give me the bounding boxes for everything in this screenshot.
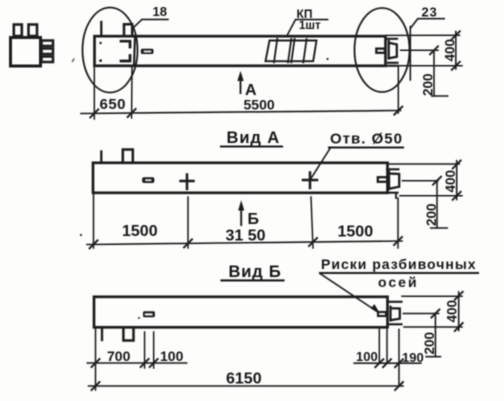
top view right cup top line	[386, 38, 397, 40]
view B rod ext 2	[153, 332, 155, 368]
dim line 650+5500	[81, 111, 401, 114]
svg-text:31 50: 31 50	[226, 228, 266, 245]
view B 400 ext top	[402, 295, 462, 297]
view B tick 6150 left	[92, 382, 100, 390]
label 18 leader	[133, 19, 168, 28]
section icon top lug 1	[14, 25, 22, 37]
top view 400 tick bottom	[452, 62, 460, 70]
view A 200 tick	[433, 177, 441, 185]
svg-text:18: 18	[153, 4, 167, 19]
KP stripe 4	[303, 39, 306, 62]
detail ellipse right	[355, 8, 410, 92]
view B beam outline	[94, 297, 388, 328]
svg-text:700: 700	[107, 348, 131, 364]
view A dim ext 3	[311, 197, 313, 248]
svg-text:Риски разбивочных: Риски разбивочных	[321, 256, 477, 272]
view A cross mark 2	[303, 173, 317, 189]
top view riska axis line	[409, 27, 411, 81]
view A hole leader	[310, 149, 330, 181]
svg-text:Отв. Ø50: Отв. Ø50	[330, 131, 403, 148]
view A beam outline	[93, 163, 388, 193]
view B cup bottom line	[389, 323, 402, 325]
svg-text:Вид Б: Вид Б	[229, 263, 282, 281]
view A dim ext 4	[397, 198, 399, 248]
view B center ext	[403, 313, 438, 315]
KP stripe 1	[274, 39, 277, 63]
top view right handle	[376, 49, 385, 53]
svg-text:23: 23	[422, 5, 438, 20]
view A 400 ext top	[389, 163, 460, 165]
view B 400 tick bottom	[455, 323, 463, 331]
tick 650 right	[128, 109, 136, 117]
top view 200 shelf	[432, 95, 448, 97]
svg-text:1шт: 1шт	[299, 20, 321, 32]
speck dot below handle B	[138, 317, 140, 319]
svg-text:400: 400	[443, 39, 458, 62]
view A dim ext 1	[93, 194, 95, 248]
top view beam outline	[95, 36, 386, 66]
svg-text:400: 400	[443, 170, 458, 193]
top view 400 dim line	[455, 32, 457, 70]
svg-text:650: 650	[100, 96, 127, 113]
section icon top lug 2	[29, 25, 38, 37]
view B tick 100 right	[150, 359, 158, 367]
view B 400 tick top	[455, 292, 463, 300]
view B riska leader	[320, 274, 379, 313]
view A 400 tick top	[453, 161, 461, 169]
section icon right lug 1	[42, 41, 54, 47]
view B ext right 2	[386, 329, 388, 363]
underline Vid A	[221, 145, 282, 147]
KP stripe 2	[288, 39, 291, 62]
view A dim line	[87, 241, 402, 245]
top view right cup bottom line	[388, 62, 398, 64]
top view 200 tick	[430, 46, 438, 54]
view B dim line 6150	[89, 385, 404, 387]
view A cross mark 1	[181, 175, 194, 190]
top view bracket top	[121, 41, 130, 47]
svg-text:100: 100	[356, 349, 378, 364]
view B 200 dim line	[434, 314, 436, 357]
view A right handle	[378, 177, 388, 182]
svg-text:КП: КП	[297, 7, 313, 21]
detail ellipse left	[83, 8, 138, 93]
dim 650 extension right	[131, 67, 133, 118]
view B 400 dim line	[458, 292, 460, 331]
view B handle bar	[143, 311, 155, 317]
top view dot 1	[99, 42, 101, 44]
view B bottom lug	[123, 329, 133, 341]
svg-text:400: 400	[445, 300, 460, 323]
view A top lug	[123, 150, 133, 163]
view A bottom edge under cup	[387, 192, 398, 194]
view B dim line 700-100	[87, 362, 186, 364]
view A tick 3	[309, 238, 317, 246]
label 23 leader	[411, 19, 444, 28]
view A dim ext 2	[187, 197, 189, 248]
view A tick 4	[394, 237, 402, 245]
view B tick 6150 right	[395, 382, 403, 390]
view A 400 ext bottom	[400, 195, 462, 197]
view B tick r3	[395, 359, 403, 367]
top view bottom edge under cup	[386, 65, 399, 67]
view A right cup	[389, 172, 399, 189]
underline Vid B	[222, 279, 284, 281]
view B tick 700 right	[141, 359, 149, 367]
top view 400 tick top	[452, 31, 460, 39]
view B 200 tick	[431, 310, 439, 318]
view A tick 2	[184, 239, 192, 247]
view B cup	[391, 307, 400, 321]
speck slash left of beam	[72, 59, 74, 62]
section icon square	[11, 38, 41, 67]
view B dim line 100-190	[354, 362, 421, 364]
svg-text:6150: 6150	[226, 371, 262, 388]
view A small tick below cup	[395, 194, 397, 198]
top view bracket bottom	[121, 56, 130, 62]
view B 400 ext bottom	[404, 326, 462, 328]
svg-text:1500: 1500	[338, 224, 374, 241]
view B riska mark	[378, 312, 386, 316]
label KP leader	[287, 20, 328, 37]
view B tick r1	[375, 359, 383, 367]
view B tick r2	[383, 359, 391, 367]
view A handle bar	[142, 177, 154, 183]
view B anchor rod below	[101, 329, 103, 340]
top view handle bar	[141, 49, 154, 54]
underline Riski	[320, 272, 478, 274]
top view center ext line	[401, 49, 438, 51]
top view right cup	[389, 41, 397, 59]
underline Otv	[329, 146, 403, 148]
svg-text:200: 200	[424, 203, 439, 226]
view A 400 dim line	[456, 161, 458, 200]
svg-text:200: 200	[421, 73, 436, 96]
svg-text:Вид А: Вид А	[227, 129, 281, 147]
view B tick 700 left	[92, 359, 100, 367]
view A 200 shelf	[431, 227, 448, 229]
speck dot near KP	[326, 58, 328, 60]
svg-text:200: 200	[422, 332, 437, 355]
view B ext left	[95, 329, 97, 390]
view A 400 tick bottom	[453, 192, 461, 200]
section arrow A	[239, 74, 243, 93]
KP striped pocket	[266, 41, 317, 62]
view B rod ext 1	[144, 332, 146, 368]
KP stripe 3	[291, 39, 294, 62]
section arrow B	[239, 204, 243, 226]
top view 400 ext top	[387, 34, 460, 36]
view A 200 dim line	[436, 181, 438, 228]
svg-text:5500: 5500	[244, 97, 275, 113]
section icon right lug 2	[42, 49, 54, 55]
tick 650 left	[90, 109, 98, 117]
view A tick 1	[90, 240, 98, 248]
top view top lug	[124, 24, 132, 35]
svg-text:190: 190	[402, 350, 424, 365]
dim 5500 extension right	[397, 67, 399, 113]
view A anchor rod	[100, 152, 102, 163]
view A right cup top line	[387, 168, 398, 170]
top view 200 dim line	[433, 50, 435, 96]
svg-text:100: 100	[160, 348, 184, 364]
top view 400 ext bottom	[399, 65, 463, 67]
view B ext right 3	[398, 329, 400, 386]
view B 200 shelf	[426, 356, 440, 358]
svg-text:1500: 1500	[122, 223, 158, 240]
top view anchor rod left	[100, 22, 102, 36]
tick 5500 right	[394, 107, 402, 115]
svg-text:Б: Б	[248, 211, 260, 228]
dim 650/5500 extension left	[93, 67, 95, 119]
view B cup top line	[388, 301, 402, 303]
section icon right lug 3	[42, 57, 54, 63]
top view dot 2	[99, 59, 102, 62]
speck dot left margin	[80, 234, 82, 236]
top view left end block edge	[134, 37, 135, 66]
view A center ext	[402, 180, 438, 182]
svg-text:осей: осей	[378, 274, 419, 290]
view B ext right 1	[378, 329, 380, 363]
